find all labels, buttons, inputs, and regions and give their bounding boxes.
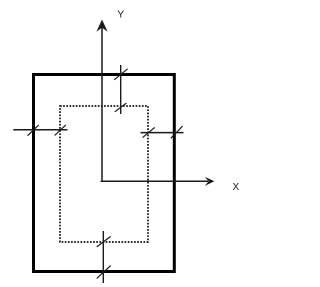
svg-text:X: X bbox=[232, 182, 239, 193]
tick on inner bottom edge bbox=[97, 236, 111, 247]
right dimension line bbox=[141, 132, 184, 134]
tick on inner left edge bbox=[55, 125, 66, 136]
bottom dimension line bbox=[102, 231, 104, 283]
left dimension line bbox=[13, 129, 67, 131]
tick on outer top edge bbox=[114, 69, 127, 80]
inner dotted rectangle bbox=[60, 106, 148, 242]
Y axis bbox=[96, 20, 107, 183]
svg-text:Y: Y bbox=[117, 9, 124, 21]
tick on inner right edge bbox=[143, 127, 155, 137]
top dimension line bbox=[120, 65, 122, 114]
outer plate rectangle bbox=[34, 75, 175, 272]
tick on inner top edge bbox=[115, 103, 127, 112]
tick on outer left edge bbox=[28, 125, 39, 136]
tick on outer right edge bbox=[171, 126, 183, 138]
X axis bbox=[101, 177, 215, 186]
tick on outer bottom edge bbox=[97, 266, 111, 279]
